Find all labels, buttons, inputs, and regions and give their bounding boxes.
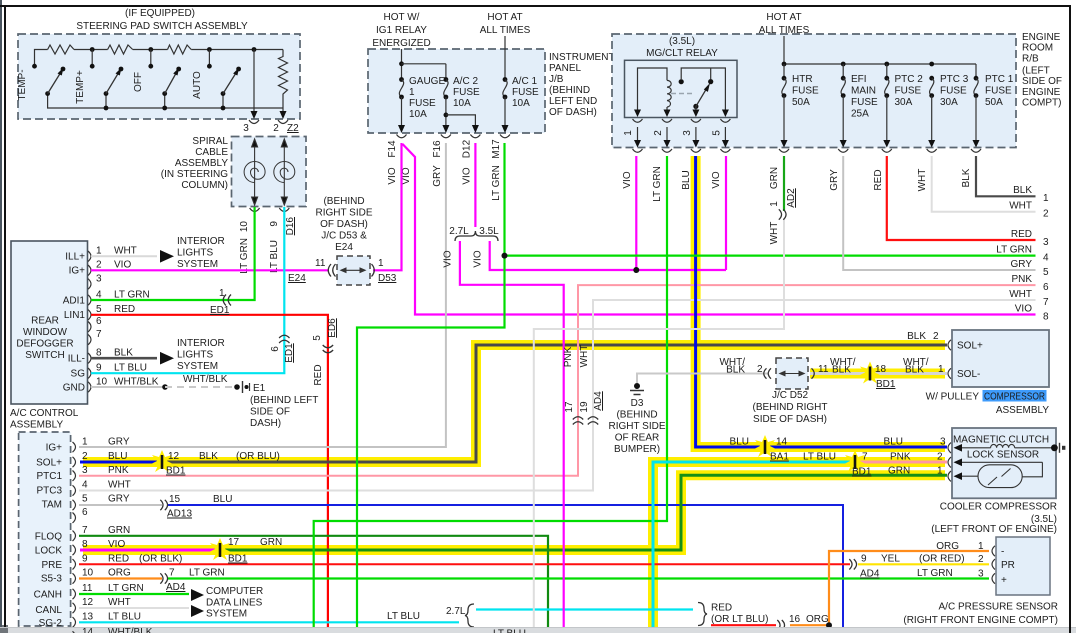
brace right grouping <box>698 603 707 626</box>
svg-text:ASSEMBLY: ASSEMBLY <box>10 420 63 431</box>
wire highlight SOL+ path <box>83 457 162 467</box>
svg-text:11: 11 <box>818 364 829 375</box>
svg-text:(3.5L): (3.5L) <box>669 36 695 47</box>
splice 7 BD1 on LT BLU run <box>803 450 943 478</box>
svg-text:2: 2 <box>273 123 279 134</box>
svg-text:5: 5 <box>312 335 323 341</box>
svg-text:(LEFT: (LEFT <box>1022 66 1050 77</box>
wire GRY EFI fuse to edge pin 5 <box>843 156 1035 270</box>
svg-text:CABLE: CABLE <box>195 147 228 158</box>
connector AD4 pin 9 on PRE wire <box>849 554 964 580</box>
svg-text:19: 19 <box>579 401 590 413</box>
svg-text:LOCK: LOCK <box>35 546 63 557</box>
svg-text:10: 10 <box>96 376 108 387</box>
chain junction dots <box>90 47 257 110</box>
svg-text:PANEL: PANEL <box>549 63 581 74</box>
svg-text:WHT: WHT <box>579 345 590 368</box>
svg-text:50A: 50A <box>792 97 810 108</box>
svg-text:BLU: BLU <box>108 451 127 462</box>
a/c control assembly label <box>10 408 79 431</box>
wire VIO defogger IG+ to E24 connector <box>91 269 328 271</box>
wire VIO F14 second branch to edge pin 8 <box>403 144 1036 315</box>
svg-text:VIO: VIO <box>622 171 633 188</box>
svg-text:YEL: YEL <box>881 554 900 565</box>
compressor caption W/ PULLEY COMPRESSOR ASSEMBLY <box>926 390 1050 416</box>
fuse HTR FUSE 50A <box>781 64 820 148</box>
wire VIO relay pin 5 drop <box>725 156 727 270</box>
HOT AT ALL TIMES feed and fuse bus <box>784 36 976 78</box>
svg-text:2: 2 <box>82 451 88 462</box>
J/B branch wire to A/C 2 fuse <box>402 63 446 65</box>
svg-text:LT GRN: LT GRN <box>189 568 225 579</box>
svg-text:6: 6 <box>270 346 281 352</box>
svg-text:GRY: GRY <box>432 165 443 187</box>
wire LT GRN AD4 to sensor pin 3 <box>168 577 989 579</box>
svg-text:1: 1 <box>96 246 102 257</box>
wire WHT AD2 down-left-down off page <box>534 219 784 628</box>
wire PNK a/c PTC1 to edge pin 6 <box>79 285 1036 476</box>
svg-text:HOT W/: HOT W/ <box>384 12 420 23</box>
svg-text:VIO: VIO <box>114 260 131 271</box>
engine room R/B box <box>612 12 1062 148</box>
svg-text:OF DASH): OF DASH) <box>320 219 368 230</box>
svg-text:RED: RED <box>873 169 884 190</box>
svg-text:LT GRN: LT GRN <box>491 165 502 201</box>
svg-text:8: 8 <box>1043 312 1049 323</box>
J/B exit connector brackets <box>397 135 511 138</box>
svg-text:PTC 3: PTC 3 <box>940 74 969 85</box>
svg-text:SYSTEM: SYSTEM <box>177 259 218 270</box>
wire WHT PTC3 fuse to edge pin 2 <box>932 156 1036 212</box>
clutch case ground <box>1051 443 1065 453</box>
svg-text:PRE: PRE <box>41 560 62 571</box>
svg-text:IG+: IG+ <box>69 266 86 277</box>
svg-text:2: 2 <box>757 364 763 375</box>
svg-text:MAGNETIC CLUTCH: MAGNETIC CLUTCH <box>953 434 1049 445</box>
svg-text:ORG: ORG <box>108 568 131 579</box>
svg-text:D16: D16 <box>285 217 296 236</box>
svg-text:2: 2 <box>96 260 102 271</box>
bottom cut-off pin 14 and labels <box>73 627 526 633</box>
svg-text:GND: GND <box>63 383 85 394</box>
svg-text:GRY: GRY <box>108 437 130 448</box>
svg-text:A/C CONTROL: A/C CONTROL <box>10 408 79 419</box>
svg-text:R/B: R/B <box>1022 53 1039 64</box>
connector ED1 pin 6 on LT BLU <box>270 335 295 362</box>
wire highlight SOL- WHT/BLK path <box>810 369 945 379</box>
svg-text:4: 4 <box>82 480 88 491</box>
svg-text:ADI1: ADI1 <box>63 296 86 307</box>
svg-text:INTERIOR: INTERIOR <box>177 338 225 349</box>
spiral internal arrows <box>252 139 288 205</box>
svg-text:(IF EQUIPPED): (IF EQUIPPED) <box>125 8 195 19</box>
svg-text:E24: E24 <box>335 242 353 253</box>
svg-text:E1: E1 <box>253 383 266 394</box>
svg-text:CANL: CANL <box>35 605 62 616</box>
svg-text:BLK: BLK <box>114 348 133 359</box>
svg-text:30A: 30A <box>895 97 913 108</box>
svg-text:BD1: BD1 <box>852 467 872 478</box>
connector ED6 pin 5 on RED <box>312 318 338 386</box>
svg-text:RED: RED <box>114 304 135 315</box>
svg-text:30A: 30A <box>940 97 958 108</box>
svg-text:CANH: CANH <box>34 590 62 601</box>
svg-text:F16: F16 <box>432 140 443 158</box>
fuse PTC 3 FUSE 30A <box>928 74 969 148</box>
svg-text:(OR BLU): (OR BLU) <box>236 451 280 462</box>
svg-text:17: 17 <box>228 537 240 548</box>
svg-text:S5-3: S5-3 <box>41 574 63 585</box>
svg-text:GRY: GRY <box>108 494 130 505</box>
svg-text:PTC3: PTC3 <box>36 486 62 497</box>
svg-text:(BEHIND: (BEHIND <box>616 410 657 421</box>
svg-text:5: 5 <box>96 304 102 315</box>
svg-text:9: 9 <box>96 363 102 374</box>
wire RED a/c PRE to AD4 connector <box>79 563 850 565</box>
right edge pin labels <box>996 185 1049 323</box>
svg-text:ENERGIZED: ENERGIZED <box>372 38 430 49</box>
wire LT GRN relay pin 2 long run off page <box>314 156 667 628</box>
spiral box bottom connector brackets <box>250 208 290 212</box>
svg-text:AD4: AD4 <box>166 582 186 593</box>
svg-text:A/C 2: A/C 2 <box>453 76 478 87</box>
svg-text:WHT: WHT <box>769 222 780 245</box>
svg-text:BLK: BLK <box>1013 185 1032 196</box>
svg-text:FUSE: FUSE <box>409 98 436 109</box>
wire BLK defogger ILL- to interior lights <box>91 338 225 372</box>
defogger pin brackets and names <box>88 251 91 392</box>
svg-text:WHT/BLK: WHT/BLK <box>114 376 159 387</box>
svg-text:Z2: Z2 <box>287 123 299 134</box>
svg-text:PNK: PNK <box>563 346 574 367</box>
svg-text:INTERIOR: INTERIOR <box>177 236 225 247</box>
spiral coil left <box>244 162 265 183</box>
svg-text:VIO: VIO <box>1015 304 1032 315</box>
svg-text:HOT AT: HOT AT <box>487 12 522 23</box>
svg-text:10A: 10A <box>453 98 471 109</box>
svg-text:5: 5 <box>1043 267 1049 278</box>
wire VIO D53 to F14 <box>373 143 402 270</box>
cooler pin brackets <box>948 443 951 482</box>
svg-text:AD4: AD4 <box>593 391 604 411</box>
fuse EFI MAIN FUSE 25A <box>840 64 878 148</box>
svg-text:LT GRN: LT GRN <box>917 568 953 579</box>
svg-text:AD2: AD2 <box>786 188 797 208</box>
wire LT BLU a/c SG-2 to 2.7L brace <box>79 621 459 623</box>
svg-text:10: 10 <box>239 221 250 233</box>
svg-text:FUSE: FUSE <box>512 87 539 98</box>
resistor R2 <box>108 45 133 54</box>
svg-text:BLU: BLU <box>681 170 692 189</box>
svg-text:BLK: BLK <box>832 365 851 376</box>
svg-text:SWITCH: SWITCH <box>25 350 64 361</box>
wire BLK PTC1 fuse to edge pin 1 <box>976 156 1036 196</box>
switch contact leads <box>92 50 209 67</box>
svg-text:1: 1 <box>769 201 780 207</box>
wire BLK splice to compressor SOL+ <box>162 345 947 462</box>
wire steering pin 2 drop <box>280 108 287 119</box>
a/c control pin numbers and wire color labels <box>82 437 182 623</box>
svg-text:2: 2 <box>933 331 939 342</box>
svg-text:WINDOW: WINDOW <box>23 327 67 338</box>
a/c control pin brackets <box>73 442 76 628</box>
svg-text:ASSEMBLY: ASSEMBLY <box>996 405 1049 416</box>
svg-text:ILL-: ILL- <box>68 354 85 365</box>
wire LT GRN junction down and off page <box>357 256 505 628</box>
svg-text:3: 3 <box>940 437 946 448</box>
svg-text:50A: 50A <box>985 97 1003 108</box>
svg-text:LT BLU: LT BLU <box>493 629 526 633</box>
wire LT GRN a/c CANH to computer data lines <box>79 589 204 601</box>
wire GRN a/c FLOQ off page bottom <box>79 536 548 628</box>
instrument panel J/B box <box>368 12 615 133</box>
svg-text:BLK: BLK <box>961 168 972 187</box>
compressor pin brackets <box>948 340 951 379</box>
svg-text:7: 7 <box>82 525 88 536</box>
switch TEMP- <box>17 64 65 101</box>
svg-text:1: 1 <box>978 541 984 552</box>
svg-text:LT GRN: LT GRN <box>652 166 663 202</box>
svg-text:(IN STEERING: (IN STEERING <box>161 169 228 180</box>
svg-text:VIO: VIO <box>443 250 454 267</box>
cooler caption <box>931 502 1057 536</box>
svg-text:7: 7 <box>862 452 868 463</box>
svg-text:7: 7 <box>1043 297 1049 308</box>
svg-text:6: 6 <box>96 316 102 327</box>
svg-text:LT BLU: LT BLU <box>387 611 420 622</box>
ground E1 <box>243 381 319 429</box>
svg-text:HOT AT: HOT AT <box>766 12 801 23</box>
svg-text:FUSE: FUSE <box>940 86 967 97</box>
splice 12 BD1 on SOL+ wire <box>151 450 280 477</box>
svg-text:ALL TIMES: ALL TIMES <box>759 25 810 36</box>
svg-text:WHT/BLK: WHT/BLK <box>183 374 228 385</box>
svg-text:11: 11 <box>82 583 93 594</box>
svg-text:FUSE: FUSE <box>985 86 1012 97</box>
svg-text:FUSE: FUSE <box>453 87 480 98</box>
svg-text:STEERING PAD SWITCH ASSEMBLY: STEERING PAD SWITCH ASSEMBLY <box>76 21 248 32</box>
svg-text:RED: RED <box>108 553 129 564</box>
connector labels 10 / 9 / D16 <box>239 217 296 274</box>
MG/CLT relay box <box>625 36 738 118</box>
svg-text:BLK: BLK <box>905 365 924 376</box>
svg-text:W/ PULLEY: W/ PULLEY <box>926 392 980 403</box>
splice 14 BA1 on relay BLU run <box>730 435 946 463</box>
J/B branch wire D12 <box>446 115 479 133</box>
connector 19 on WHT vertical <box>579 391 604 425</box>
wire PNK splice 7 to cooler pin 2 <box>855 461 947 464</box>
svg-text:INSTRUMENT: INSTRUMENT <box>549 52 615 63</box>
svg-text:(OR RED): (OR RED) <box>919 554 965 565</box>
svg-text:11: 11 <box>315 258 326 269</box>
wire ORG connector 16 to sensor pin 1 <box>790 551 989 628</box>
svg-text:RED: RED <box>1011 229 1032 240</box>
svg-text:WHT/BLK: WHT/BLK <box>108 627 153 633</box>
svg-text:VIO: VIO <box>711 171 722 188</box>
wire RED LIN1 via ED6 down off page <box>91 315 328 628</box>
svg-text:SIDE OF DASH): SIDE OF DASH) <box>753 414 827 425</box>
svg-text:ENGINE: ENGINE <box>1022 32 1061 43</box>
svg-text:GRN: GRN <box>888 466 910 477</box>
labels BLK 2 at compressor SOL+ <box>907 331 939 342</box>
svg-text:1: 1 <box>378 258 384 269</box>
wire LT GRN spiral pin 10 to ADI1 <box>91 207 255 300</box>
svg-text:ORG: ORG <box>936 541 959 552</box>
svg-text:LOCK SENSOR: LOCK SENSOR <box>967 449 1039 460</box>
svg-text:1: 1 <box>82 437 88 448</box>
svg-text:14: 14 <box>82 627 94 633</box>
svg-text:AD13: AD13 <box>167 509 192 520</box>
behind-dash caption for D53/E24 <box>315 196 372 253</box>
svg-text:RED: RED <box>313 364 324 385</box>
svg-text:AD4: AD4 <box>860 569 880 580</box>
svg-text:BLU: BLU <box>884 437 903 448</box>
wire ORG a/c S5-3 to AD4 connector <box>79 577 162 579</box>
svg-text:COMPUTER: COMPUTER <box>206 586 263 597</box>
svg-text:IG+: IG+ <box>46 443 63 454</box>
svg-text:AUTO: AUTO <box>192 71 203 99</box>
svg-text:15: 15 <box>169 494 181 505</box>
svg-text:SOL+: SOL+ <box>36 458 62 469</box>
wire VIO D12 to engine split <box>474 143 476 227</box>
svg-text:GAUGE: GAUGE <box>409 76 445 87</box>
wire WHT a/c CANL to computer data lines <box>79 586 263 620</box>
wire RED (OR LT BLU) to connector 16 <box>711 603 776 626</box>
svg-text:25A: 25A <box>851 109 869 120</box>
svg-text:IG1 RELAY: IG1 RELAY <box>376 25 427 36</box>
relay coil <box>638 68 672 112</box>
svg-text:7: 7 <box>96 329 102 340</box>
svg-text:LT BLU: LT BLU <box>108 611 141 622</box>
svg-text:1: 1 <box>1043 193 1049 204</box>
fuse PTC 1 FUSE 50A <box>973 74 1014 148</box>
svg-text:12: 12 <box>168 451 180 462</box>
lock sensor element <box>958 462 1042 487</box>
sensor pin brackets <box>992 546 995 584</box>
fuse GAUGE 1 FUSE 10A <box>398 61 445 133</box>
svg-text:PTC1: PTC1 <box>36 471 62 482</box>
svg-text:VIO: VIO <box>387 167 398 184</box>
svg-text:SYSTEM: SYSTEM <box>206 609 247 620</box>
svg-text:LT BLU: LT BLU <box>114 363 147 374</box>
connector 16 on bottom RED/ORG wire <box>777 614 829 630</box>
svg-text:LT GRN: LT GRN <box>996 245 1032 256</box>
svg-text:9: 9 <box>269 221 280 227</box>
switch TEMP+ <box>75 64 123 104</box>
svg-text:COLUMN): COLUMN) <box>181 180 228 191</box>
svg-text:WHT: WHT <box>1009 201 1032 212</box>
svg-text:SG: SG <box>71 369 86 380</box>
svg-text:ASSEMBLY: ASSEMBLY <box>175 158 228 169</box>
wire steering pin 3 drop <box>251 50 258 120</box>
svg-text:FUSE: FUSE <box>792 86 819 97</box>
bottom grey strip <box>0 628 1076 633</box>
brace 2.7L bottom split <box>446 604 474 627</box>
resistor R4 vertical right <box>279 50 288 109</box>
svg-text:GRN: GRN <box>108 525 130 536</box>
wire WHT defogger ILL+ to interior lights <box>91 236 225 270</box>
connector J/C D52 box <box>719 357 855 425</box>
switch OFF <box>133 64 181 96</box>
svg-text:WHT: WHT <box>917 169 928 192</box>
svg-text:COOLER COMPRESSOR: COOLER COMPRESSOR <box>940 502 1057 513</box>
R/B exit brackets for fuses <box>779 149 981 152</box>
wire WHT/BLK D3 ground spur to J/C D52 <box>608 374 768 456</box>
svg-text:PNK: PNK <box>108 465 129 476</box>
svg-text:(BEHIND LEFT: (BEHIND LEFT <box>250 395 318 406</box>
wire GRY a/c TAM to AD13 connector <box>79 504 162 506</box>
svg-text:BA1: BA1 <box>770 452 789 463</box>
wire LT BLU thick vertical and to splice 7 <box>653 462 855 628</box>
svg-text:18: 18 <box>875 364 887 375</box>
svg-text:LT GRN: LT GRN <box>114 289 150 300</box>
svg-text:A/C 1: A/C 1 <box>512 76 537 87</box>
svg-text:2: 2 <box>653 130 664 136</box>
svg-text:BLK: BLK <box>907 331 926 342</box>
wire VIO relay pin 1 drop <box>635 156 637 270</box>
svg-text:SYSTEM: SYSTEM <box>177 361 218 372</box>
compressor assembly box <box>952 330 1049 387</box>
svg-text:TAM: TAM <box>42 500 62 511</box>
svg-text:SOL-: SOL- <box>957 369 980 380</box>
svg-text:GRN: GRN <box>769 167 780 189</box>
wire WHT/BLK D52 to compressor SOL- <box>810 372 947 375</box>
wire VIO 2.7L branch <box>460 241 564 628</box>
svg-text:ALL TIMES: ALL TIMES <box>480 25 531 36</box>
svg-text:F14: F14 <box>387 140 398 158</box>
svg-text:ROOM: ROOM <box>1022 43 1053 54</box>
spiral cable assembly box <box>161 136 306 207</box>
wire LT GRN junction to edge pin 4 <box>505 255 1036 257</box>
svg-text:LIGHTS: LIGHTS <box>177 248 213 259</box>
svg-text:DASH): DASH) <box>250 418 281 429</box>
svg-text:6: 6 <box>1043 282 1049 293</box>
svg-text:(OR LT BLU): (OR LT BLU) <box>711 614 768 625</box>
fuse PTC 2 FUSE 30A <box>883 64 923 148</box>
svg-text:MG/CLT RELAY: MG/CLT RELAY <box>646 48 718 59</box>
svg-text:BLK: BLK <box>726 365 745 376</box>
connector Z2 pins 3 and 2 <box>243 120 299 134</box>
wire highlight LT BLU vertical path <box>653 462 945 628</box>
a/c control assembly box <box>19 432 71 626</box>
svg-text:(BEHIND RIGHT: (BEHIND RIGHT <box>753 402 828 413</box>
svg-text:9: 9 <box>82 553 88 564</box>
svg-text:3: 3 <box>978 569 984 580</box>
svg-text:SIDE OF: SIDE OF <box>1022 76 1062 87</box>
svg-text:10A: 10A <box>409 109 427 120</box>
svg-text:WHT: WHT <box>1009 289 1032 300</box>
svg-text:D3: D3 <box>631 398 644 409</box>
svg-text:5: 5 <box>82 494 88 505</box>
svg-text:13: 13 <box>82 611 94 622</box>
svg-text:3: 3 <box>682 130 693 136</box>
svg-text:LIN1: LIN1 <box>64 310 86 321</box>
svg-text:VIO: VIO <box>462 167 473 184</box>
svg-text:PTC 2: PTC 2 <box>895 74 924 85</box>
wire GRN HTR fuse to AD2 <box>783 156 785 211</box>
svg-text:12: 12 <box>82 597 94 608</box>
svg-text:VIO: VIO <box>473 250 484 267</box>
svg-text:WHT: WHT <box>108 480 131 491</box>
svg-text:1: 1 <box>219 288 225 299</box>
svg-text:SOL+: SOL+ <box>957 341 983 352</box>
wire LT BLU upper 2.7L branch <box>476 608 693 610</box>
wire LT GRN M17 drop to junction <box>503 143 505 256</box>
wire RED PTC2 fuse to edge pin 3 <box>887 156 1036 240</box>
wire YEL AD4 to sensor pin 2 <box>858 563 989 565</box>
svg-text:COMPT): COMPT) <box>1022 98 1061 109</box>
svg-text:GRY: GRY <box>829 169 840 191</box>
